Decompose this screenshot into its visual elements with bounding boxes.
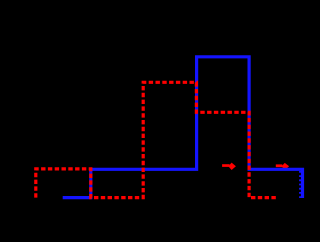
red arrow 2 (pointing right, right side) (276, 163, 289, 170)
blue solid step line (63, 57, 303, 198)
red dashed step line (36, 82, 277, 197)
red arrow 1 (pointing right, middle) (222, 163, 236, 170)
blue dashed companion (teeth on right-most vertical) (299, 171, 301, 198)
